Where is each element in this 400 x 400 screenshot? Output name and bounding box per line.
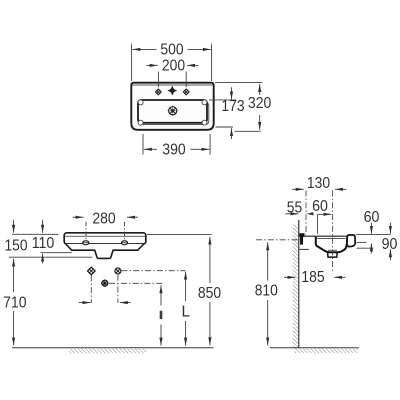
- dimension 185: [284, 276, 346, 278]
- dimension 500: [132, 44, 212, 82]
- centerline horizontal 2: [109, 282, 162, 284]
- centerline horizontal 1: [122, 270, 186, 272]
- mounting hole left: [83, 241, 89, 245]
- dimension 60 left: [318, 214, 332, 234]
- bolt centerline: [256, 239, 303, 241]
- dimension 390: [143, 134, 210, 155]
- svg-text:200: 200: [162, 58, 185, 75]
- svg-text:60: 60: [312, 198, 328, 215]
- centerline vertical right: [117, 275, 119, 303]
- svg-text:130: 130: [307, 175, 330, 192]
- symbol diamond: [88, 267, 96, 275]
- dimension 810: [267, 242, 269, 345]
- centerline vertical left: [90, 276, 92, 304]
- tap hole right: [183, 89, 189, 95]
- arrow pair at centerlines: [79, 302, 131, 304]
- floor hatch front: [69, 349, 147, 354]
- svg-text:60: 60: [364, 209, 380, 226]
- centerline A: [305, 191, 307, 235]
- svg-text:500: 500: [160, 42, 183, 59]
- svg-text:55: 55: [287, 200, 302, 217]
- tap hole center: [168, 86, 177, 95]
- floor hatch side: [295, 349, 359, 353]
- front view body: [66, 244, 144, 258]
- mounting hole right: [121, 241, 127, 245]
- basin top view outline: [131, 83, 213, 130]
- svg-text:110: 110: [32, 235, 55, 252]
- svg-text:810: 810: [255, 283, 278, 300]
- svg-text:850: 850: [198, 285, 221, 302]
- basin side profile: [300, 235, 356, 257]
- dimension 150: [9, 220, 92, 257]
- svg-text:280: 280: [92, 210, 115, 227]
- symbol cross circle mid: [101, 279, 109, 287]
- dimension 320: [215, 82, 262, 129]
- extension lines right: [356, 235, 391, 249]
- wall hatch: [293, 225, 299, 351]
- floor line front: [12, 347, 214, 349]
- dimension 110: [41, 220, 72, 264]
- front view rim: [64, 233, 146, 244]
- svg-text:320: 320: [248, 95, 271, 112]
- dimension 710: [13, 259, 15, 346]
- dimension 130: [292, 188, 347, 190]
- dimension 55: [286, 212, 314, 215]
- rim top extension left: [12, 233, 59, 235]
- basin top view bowl: [138, 100, 209, 125]
- floor line side: [270, 347, 359, 349]
- svg-text:L: L: [182, 304, 191, 321]
- svg-text:185: 185: [301, 269, 324, 286]
- svg-text:390: 390: [162, 142, 185, 159]
- dimension 200: [146, 65, 198, 87]
- svg-text:173: 173: [221, 98, 244, 115]
- dimension 850: [147, 235, 212, 346]
- dimension 90: [389, 223, 391, 261]
- unlabeled dimension with dash placeholder: [160, 285, 162, 345]
- drain symbol: [167, 105, 179, 117]
- dimension 60 right: [370, 223, 372, 254]
- wall bracket: [299, 233, 304, 244]
- symbol circle right: [115, 268, 121, 274]
- dimension 173: [209, 87, 236, 139]
- svg-text:710: 710: [3, 295, 26, 312]
- tap hole left: [155, 89, 161, 95]
- wall face side view: [298, 220, 300, 348]
- svg-text:150: 150: [5, 237, 28, 254]
- witness line right bottom: [235, 130, 261, 132]
- centerline B: [332, 191, 334, 274]
- dimension L: [185, 272, 187, 346]
- svg-text:90: 90: [382, 236, 398, 253]
- dimension 280: [73, 217, 138, 239]
